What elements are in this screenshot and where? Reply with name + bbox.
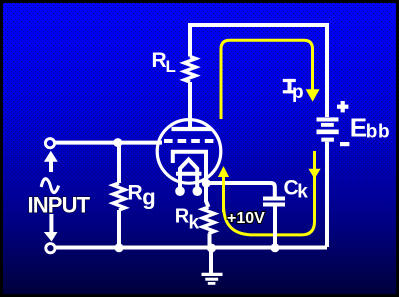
tube cathode <box>173 152 206 184</box>
node: grid/Rg junction <box>113 138 122 147</box>
yellow plate-current path (top loop) <box>221 40 313 119</box>
svg-text:bb: bb <box>366 122 390 143</box>
svg-text:INPUT: INPUT <box>28 192 91 217</box>
svg-text:R: R <box>152 49 167 72</box>
svg-text:p: p <box>292 82 304 103</box>
yellow cathode arrow (over white wire) <box>222 176 225 212</box>
resistor Rk zigzag <box>203 207 215 234</box>
tube filament <box>180 160 197 190</box>
sine symbol <box>41 179 58 193</box>
tube plate <box>172 127 212 131</box>
arrowhead Ip into battery <box>306 89 320 101</box>
wire cathode to Rk <box>206 184 209 208</box>
svg-text:k: k <box>189 212 200 233</box>
label Ip <box>283 79 296 82</box>
tube envelope <box>157 120 221 184</box>
arrowhead below battery <box>308 169 320 179</box>
ground symbol <box>209 249 213 274</box>
INPUT terminal bottom <box>46 244 55 253</box>
node: bus/Ck junction <box>271 243 280 252</box>
bottom bus wire <box>54 246 327 250</box>
battery + sign <box>341 101 345 112</box>
svg-text:+10V: +10V <box>227 210 265 227</box>
wire Rg branch upper <box>117 143 121 183</box>
svg-text:k: k <box>297 181 308 202</box>
INPUT terminal top <box>45 139 54 148</box>
wire Rg branch lower <box>117 210 121 247</box>
yellow return path (battery to cathode) <box>224 151 315 235</box>
wire RL to tube plate <box>188 82 192 128</box>
node: cathode junction <box>202 179 211 188</box>
battery Ebb plates <box>317 117 339 121</box>
wire battery to bus <box>325 142 329 247</box>
svg-text:E: E <box>350 112 367 142</box>
wire Ck to bus (covers yellow) <box>273 207 277 248</box>
wire cathode junction to Ck <box>206 183 275 197</box>
tube grid (dashed) <box>164 139 216 143</box>
node: bus/Rg junction <box>115 243 124 252</box>
battery - sign <box>340 142 349 146</box>
arrow down (input) <box>49 214 53 233</box>
resistor Rg zigzag <box>113 183 125 210</box>
svg-text:L: L <box>166 57 176 76</box>
capacitor Ck plates <box>263 197 285 201</box>
svg-text:g: g <box>142 184 155 209</box>
svg-text:R: R <box>128 182 143 205</box>
top wire (plate to battery +) <box>190 25 327 117</box>
resistor RL zigzag <box>184 57 196 83</box>
grid wire from input to tube <box>54 141 162 145</box>
wire Rk to bus <box>208 234 212 248</box>
arrow up (input) <box>49 161 53 172</box>
node: bus/Rk-ground junction <box>207 244 216 253</box>
